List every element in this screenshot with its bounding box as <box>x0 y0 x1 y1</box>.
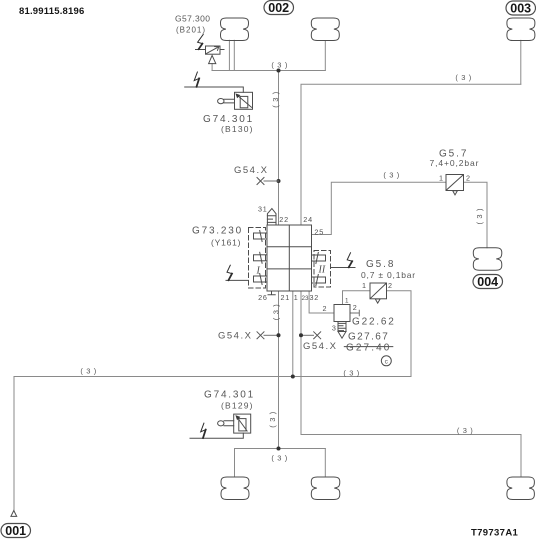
port oval 004 <box>473 275 503 289</box>
svg-text:1: 1 <box>294 293 299 302</box>
svg-text:1: 1 <box>439 174 444 183</box>
check valve triangle of G57.300 <box>209 55 216 63</box>
sensor G74.301 (B129) <box>218 414 251 433</box>
svg-text:21: 21 <box>281 293 291 302</box>
test point X lower-left <box>257 332 264 339</box>
lightning bolt B201 <box>198 35 204 50</box>
pilot valve I row3 <box>254 274 268 285</box>
wire: bellows1 right stem <box>233 40 235 70</box>
svg-text:001: 001 <box>5 524 26 538</box>
wire: stub to upper G54.X test point <box>264 180 279 182</box>
wire: bellows2 stem <box>324 41 326 71</box>
dashed box solenoid group I <box>249 228 266 289</box>
plug port 26 <box>268 291 275 295</box>
node: junction lower-left G54.X <box>277 333 281 337</box>
wire: stub to lower-right G54.X test point <box>301 334 314 336</box>
wire: G22.62 port 2 right stub <box>350 310 359 315</box>
bellows 004 <box>473 248 502 270</box>
pilot valve II row2 <box>312 253 326 264</box>
supply source triangle 001 <box>11 511 17 517</box>
svg-text:II: II <box>318 265 326 276</box>
svg-text:002: 002 <box>268 1 289 15</box>
port oval 002 <box>264 1 294 15</box>
wire: right middle bellows stem <box>324 449 326 478</box>
wire: G57.300 valve left lead <box>196 49 206 51</box>
wire: port 32 to G22.62 port 2 <box>309 291 334 313</box>
valve block G73.230 body <box>267 225 312 291</box>
wire: port 1 supply drop <box>292 291 294 377</box>
svg-text:(B130): (B130) <box>221 124 254 134</box>
svg-text:G27.67: G27.67 <box>348 332 389 343</box>
svg-text:(3): (3) <box>343 368 362 377</box>
svg-text:G57.300: G57.300 <box>175 14 210 24</box>
node: junction port21 line with axle cross line <box>277 447 281 451</box>
dashed box solenoid group II <box>314 251 331 288</box>
svg-text:2: 2 <box>323 304 328 313</box>
silencer port 3 of G22.62 <box>338 322 346 339</box>
pilot valve I row2 <box>254 252 268 263</box>
svg-text:(3): (3) <box>271 60 290 69</box>
svg-text:(Y161): (Y161) <box>211 238 241 248</box>
pilot valve I row1 <box>254 231 268 242</box>
svg-text:G54.X: G54.X <box>234 165 268 176</box>
wire: 003 line to port 24 <box>301 84 521 225</box>
svg-text:G54.X: G54.X <box>303 341 337 352</box>
test point X upper <box>257 178 264 185</box>
wire: sensor B129 cable <box>190 433 243 438</box>
wire: solenoid group II cable <box>331 267 356 269</box>
svg-text:2: 2 <box>388 281 393 290</box>
svg-text:(3): (3) <box>457 426 476 435</box>
lightning bolt B129 <box>201 423 206 438</box>
bellows 002 right (front axle right) <box>311 18 339 41</box>
wire: stub to lower-left G54.X test point <box>264 334 279 336</box>
svg-text:(3): (3) <box>383 171 402 180</box>
svg-text:(3): (3) <box>80 367 99 376</box>
node: junction lower-right G54.X <box>299 333 303 337</box>
bellows rear right <box>507 477 535 500</box>
svg-text:1: 1 <box>362 281 367 290</box>
svg-text:0,7 ± 0,1bar: 0,7 ± 0,1bar <box>361 270 416 280</box>
pilot valve II row3 <box>312 275 326 286</box>
svg-text:(B201): (B201) <box>176 26 206 35</box>
svg-text:22: 22 <box>279 215 289 224</box>
node: junction port 1 on supply gallery <box>291 375 295 379</box>
bellows 003 <box>507 18 535 41</box>
svg-text:T79737A1: T79737A1 <box>471 528 519 539</box>
valve G57.300 (B201) body <box>206 46 221 54</box>
lightning bolt solenoid II <box>347 253 352 267</box>
wire: G5.7 outlet to 004 bellows <box>464 182 488 248</box>
svg-text:(3): (3) <box>271 88 280 107</box>
svg-text:3: 3 <box>332 324 337 333</box>
wire: middle axle cross line <box>235 448 326 450</box>
wire: main gallery at y70.5 from valve G57.300 drain to bellows2 stem <box>212 70 325 72</box>
wire: supply gallery from 001 <box>14 376 411 378</box>
port oval 003 <box>506 1 536 15</box>
svg-text:(3): (3) <box>272 301 281 320</box>
svg-text:2: 2 <box>353 303 358 312</box>
wire: G57.300 drain to gallery <box>211 64 213 71</box>
svg-text:1: 1 <box>345 297 349 304</box>
lightning bolt B130 <box>194 72 199 87</box>
svg-text:G73.230: G73.230 <box>192 226 243 237</box>
sensor G74.301 (B130) <box>218 92 253 109</box>
node: junction G54.X upper test point <box>277 179 281 183</box>
svg-text:23: 23 <box>302 295 310 302</box>
wire: bellows1 left stem <box>228 40 230 70</box>
svg-text:G54.X: G54.X <box>218 331 252 342</box>
svg-text:G74.301: G74.301 <box>204 390 255 401</box>
bellows middle axle right <box>311 477 340 500</box>
bellows middle axle left <box>221 477 249 500</box>
svg-text:G27.40: G27.40 <box>346 343 391 354</box>
port oval 001 <box>1 524 31 538</box>
node: junction 002 gallery <box>277 69 281 73</box>
arrowhead of B129 sensor <box>235 415 240 420</box>
bellows 002 left (front axle left) <box>221 18 249 41</box>
svg-text:2: 2 <box>466 174 471 183</box>
wire: G57.300 valve right stub <box>220 49 224 51</box>
arrowhead of B130 sensor <box>235 93 240 98</box>
pressure limiter G5.7 <box>446 175 464 195</box>
svg-text:31: 31 <box>258 205 268 214</box>
svg-text:(3): (3) <box>268 408 277 427</box>
svg-text:25: 25 <box>314 227 324 236</box>
svg-text:(3): (3) <box>271 454 290 463</box>
strikethrough line over G27.40 <box>344 346 393 348</box>
wire: sensor B130 cable <box>185 87 244 92</box>
pressure limiter G5.8 <box>370 283 387 303</box>
wire: G5.8 outlet down to supply gallery <box>387 291 412 377</box>
svg-text:G5.8: G5.8 <box>366 259 395 270</box>
svg-text:32: 32 <box>310 293 320 302</box>
svg-text:26: 26 <box>258 293 268 302</box>
wire: port 21 drop <box>278 291 280 449</box>
svg-text:(3): (3) <box>475 205 484 224</box>
svg-text:(B129): (B129) <box>221 401 254 411</box>
silencer port 31 <box>267 209 276 226</box>
test point X lower-right <box>314 332 321 339</box>
svg-text:I: I <box>256 266 261 277</box>
wire: port 23 to rear right bellows <box>301 291 521 477</box>
svg-text:003: 003 <box>510 2 531 16</box>
svg-text:81.99115.8196: 81.99115.8196 <box>19 6 84 17</box>
wire: 003 bellows stem <box>520 40 522 84</box>
copyright circle <box>381 356 391 366</box>
svg-text:G22.62: G22.62 <box>352 317 396 328</box>
wire: left middle bellows stem <box>234 449 236 478</box>
wire: G5.8 inlet line to G22.62 port 1 <box>343 291 371 305</box>
lightning bolt solenoid I <box>227 265 232 280</box>
svg-text:7,4+0,2bar: 7,4+0,2bar <box>430 158 480 168</box>
svg-text:24: 24 <box>303 215 313 224</box>
svg-text:004: 004 <box>477 275 498 289</box>
wire: port 25 to G5.7 inlet <box>312 182 447 234</box>
wire: 001 riser <box>13 377 15 511</box>
wire: solenoid group I cable <box>226 279 249 281</box>
wire: port 22 riser from node at y70.5 down to valve block <box>278 71 280 226</box>
svg-text:(3): (3) <box>455 73 474 82</box>
overflow valve G22.62 body <box>334 305 350 322</box>
